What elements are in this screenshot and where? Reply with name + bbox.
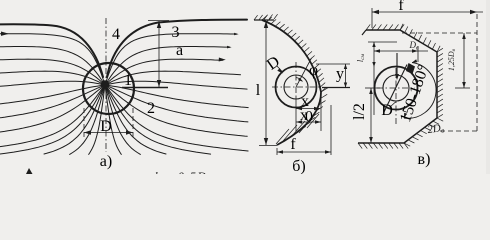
svg-text:l/2: l/2	[351, 103, 368, 120]
svg-text:1,25Dв: 1,25Dв	[447, 48, 457, 71]
svg-text:2: 2	[147, 100, 155, 117]
svg-text:а): а)	[100, 153, 112, 170]
svg-text:l = 0,5D: l = 0,5D	[154, 169, 207, 174]
svg-text:y: y	[336, 66, 344, 83]
svg-text:1: 1	[124, 72, 132, 89]
svg-text:l: l	[256, 82, 261, 99]
svg-text:D: D	[100, 118, 112, 135]
svg-text:f: f	[398, 0, 404, 14]
svg-text:4: 4	[112, 26, 120, 43]
svg-text:3: 3	[172, 24, 180, 41]
svg-text:a: a	[176, 42, 183, 59]
svg-text:б): б)	[292, 158, 305, 174]
svg-text:f: f	[290, 136, 296, 153]
svg-text:D: D	[381, 102, 393, 119]
svg-text:φ: φ	[309, 62, 318, 79]
svg-text:0: 0	[305, 109, 313, 126]
svg-text:в): в)	[418, 151, 431, 168]
